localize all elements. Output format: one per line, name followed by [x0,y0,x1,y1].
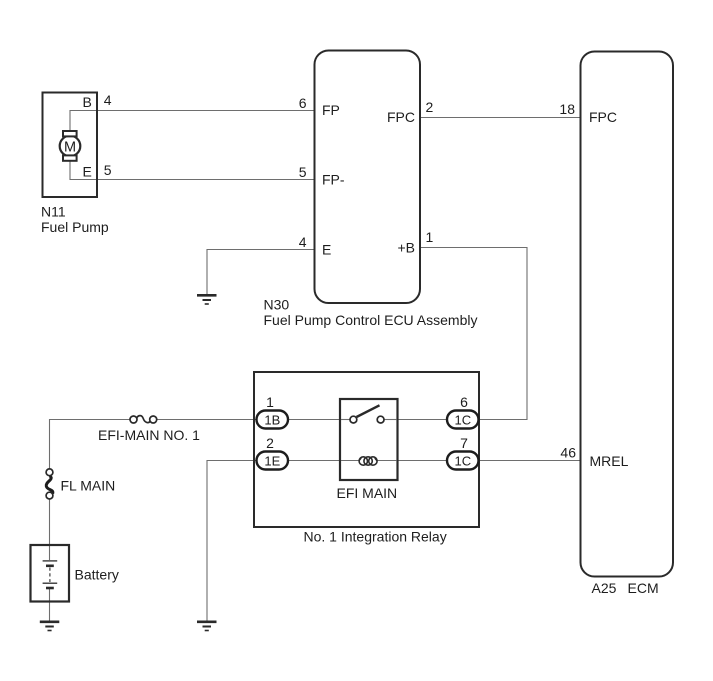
svg-text:Fuel Pump: Fuel Pump [41,219,109,235]
svg-text:4: 4 [104,92,112,108]
svg-text:1C: 1C [454,412,471,427]
svg-text:EFI MAIN: EFI MAIN [337,485,398,501]
svg-text:+B: +B [397,240,415,256]
svg-text:46: 46 [560,445,576,461]
svg-text:1B: 1B [264,412,280,427]
svg-text:FL MAIN: FL MAIN [61,478,116,494]
svg-text:M: M [64,139,76,155]
svg-text:4: 4 [299,234,307,250]
svg-text:N30: N30 [264,297,290,313]
svg-text:FP-: FP- [322,172,345,188]
svg-text:7: 7 [460,435,468,451]
svg-text:5: 5 [104,162,112,178]
svg-text:ECM: ECM [628,580,659,596]
svg-text:2: 2 [426,99,434,115]
svg-text:2: 2 [266,435,274,451]
svg-text:No. 1 Integration Relay: No. 1 Integration Relay [304,529,447,545]
svg-text:EFI-MAIN NO. 1: EFI-MAIN NO. 1 [98,427,200,443]
svg-text:FP: FP [322,102,340,118]
svg-text:FPC: FPC [589,109,617,125]
svg-text:5: 5 [299,164,307,180]
svg-text:A25: A25 [592,580,617,596]
svg-text:FPC: FPC [387,109,415,125]
svg-text:1E: 1E [264,453,280,468]
svg-text:6: 6 [299,95,307,111]
svg-text:1: 1 [266,394,274,410]
svg-text:E: E [322,242,331,258]
svg-text:18: 18 [559,101,575,117]
svg-text:6: 6 [460,394,468,410]
svg-text:E: E [83,164,92,180]
svg-text:MREL: MREL [590,453,629,469]
svg-text:B: B [83,94,92,110]
svg-text:N11: N11 [41,204,66,220]
svg-text:1: 1 [426,229,434,245]
svg-text:Fuel Pump Control ECU Assembly: Fuel Pump Control ECU Assembly [264,312,478,328]
svg-text:Battery: Battery [75,567,119,583]
svg-text:1C: 1C [454,453,471,468]
